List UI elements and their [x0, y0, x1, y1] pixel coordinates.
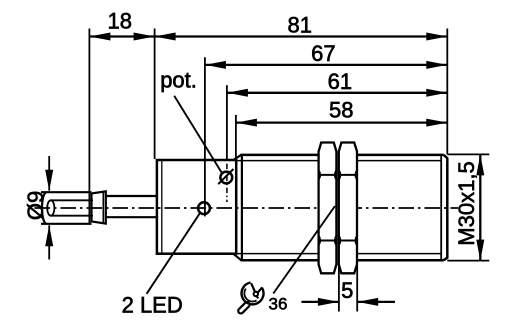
dim Ø9 bottom arrow — [48, 225, 50, 259]
pot axis dash-dot — [226, 164, 228, 202]
housing body — [157, 160, 236, 254]
dim M30 tick top — [447, 153, 489, 155]
svg-text:2 LED: 2 LED — [122, 292, 183, 317]
centerline (sensor axis) — [35, 207, 459, 209]
housing inner edge line — [161, 161, 163, 253]
svg-text:61: 61 — [328, 69, 352, 94]
dim 61 line — [227, 92, 447, 94]
stem — [106, 196, 157, 217]
strain-relief collar — [92, 191, 106, 223]
dim 81 line — [155, 35, 448, 37]
pot slot slash — [218, 169, 233, 184]
dim 18 arrows — [89, 33, 154, 41]
dim 67 arrows — [205, 61, 447, 69]
hex nut 1 — [319, 143, 337, 274]
sleeve end cap — [42, 193, 46, 224]
barrel outer (thread crest) lines — [241, 155, 444, 260]
thread start line — [241, 155, 243, 260]
dim M30 line — [479, 154, 481, 260]
svg-text:67: 67 — [311, 41, 335, 66]
svg-text:5: 5 — [341, 278, 353, 303]
svg-text:18: 18 — [108, 9, 132, 34]
sensing face cap line — [440, 156, 442, 259]
step chamfer bottom — [233, 254, 241, 261]
dim right extension line at face — [446, 29, 448, 155]
svg-text:Ø9: Ø9 — [23, 191, 48, 220]
dim 5 lines — [302, 301, 396, 303]
pot marker circle — [220, 172, 232, 184]
hex nut 2 — [339, 143, 357, 274]
dim 18 extension line left — [88, 29, 90, 225]
dim 61 extension line — [226, 85, 228, 160]
cable inner lines — [51, 200, 93, 215]
dim 18 line — [89, 35, 154, 37]
LED marker circle — [198, 202, 210, 214]
dim Ø9 top arrow — [48, 156, 50, 191]
dim 18/81 extension line shared — [154, 29, 156, 160]
dim 67 line — [205, 64, 447, 66]
svg-text:81: 81 — [287, 12, 311, 37]
collar inner line — [102, 192, 104, 223]
dim M30 arrows — [476, 154, 484, 260]
svg-text:58: 58 — [329, 98, 353, 123]
nut boundary diamonds — [319, 170, 357, 246]
dim 58 extension line — [235, 115, 237, 159]
dim 61 arrows — [227, 89, 447, 97]
dim 81 arrows — [155, 33, 448, 41]
step chamfer top — [233, 155, 241, 160]
dim 58 line — [236, 121, 447, 123]
LED leader line — [147, 213, 201, 294]
dim 58 arrows — [236, 119, 447, 127]
wrench symbol — [237, 283, 263, 315]
thread root lines — [236, 161, 441, 254]
dim 5 extension lines — [339, 266, 357, 312]
svg-text:36: 36 — [269, 294, 288, 313]
cable inner end — [47, 200, 54, 215]
cable sleeve Ø9 — [41, 192, 92, 224]
svg-text:pot.: pot. — [160, 67, 197, 92]
dim 67 extension line — [204, 57, 206, 216]
dim M30 tick bottom — [447, 260, 489, 262]
sensing face right edge with chamfers — [444, 155, 448, 260]
dim 5 arrows — [318, 298, 378, 306]
svg-text:M30x1,5: M30x1,5 — [454, 161, 479, 245]
pot leader line — [174, 96, 222, 173]
nut 2 face lines — [339, 175, 357, 241]
nut 1 face lines — [319, 175, 337, 241]
wrench leader line — [273, 206, 335, 294]
